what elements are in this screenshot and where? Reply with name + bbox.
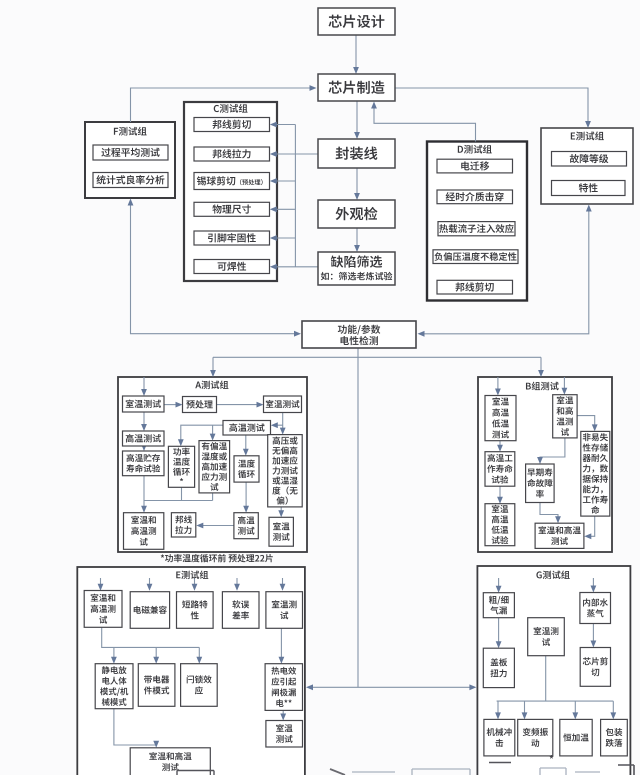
arrow into A-group top [212,357,214,374]
wire G distribution [497,656,614,716]
group frame F-test-group [85,122,175,198]
arrow packaging-line to bond-pull [273,153,318,155]
arrow A-top to room-temp-test-1 [143,377,145,393]
title G-test-group [536,570,569,579]
box defect-screening [318,252,395,285]
arrow B-top to rt-ht-lt-test [497,377,499,392]
item solderball-shear [194,173,270,190]
item high-temp-test-A [123,431,165,446]
arrow Ebottom-top to rt-test [282,578,284,588]
item failure-grade [552,152,627,167]
item bond-shear-D [437,280,513,294]
item bond-pull-A [171,513,195,537]
title E-test-group-bottom [176,570,208,579]
arrow Ebottom-top to short-circuit [194,578,196,588]
arrow thermoelectric to rt-bottom [282,711,284,718]
arrow into B-group top [540,357,542,374]
item room-temp-test-A-bottom [269,517,293,546]
arrow room-temp-1 to high-temp-test [143,412,145,428]
arrow trunk to bond-shear [273,124,295,126]
arrow D-group feedback to chip-manufacture [374,105,476,142]
wire distribution line to A and B [213,356,541,358]
item electromigration [437,159,513,173]
arrow ht-operating-life to rt-ht-lt-trial [499,486,501,500]
item nbti [433,250,518,264]
arrow trunk to physical-dimension [273,208,295,210]
note power-temp-cycle-precondition [161,554,273,562]
arrow chip-manufacture to E-group [395,88,588,125]
arrow chip-design to chip-manufacture [355,35,357,71]
arrow defect-screening to solderability [273,266,318,268]
item characteristics [552,181,626,196]
arrow hast-box to room-temp-bottom [280,507,282,514]
arrow G-top to internal-water-vapor [592,578,594,589]
item esd-hbm-mm [95,664,133,709]
arrow Ebottom-top to soft-error [236,578,238,588]
group frame E-test-group bottom-left [77,567,305,775]
title E-test-group [571,131,604,140]
box packaging-line [318,139,395,168]
arrow rt-test to thermoelectric [280,629,282,661]
item short-circuit-characteristic [177,592,214,629]
arrow preconditioning to room-temp-2 [217,404,261,406]
item rt-ht-lt-test [485,396,516,441]
group frame D-test-group [427,142,527,301]
arrow Ebottom-top to rt-ht-test [100,578,102,588]
arrow to biased-humidity [212,425,214,437]
item lead-integrity [194,231,270,245]
wire center trunk from electrical-test [357,348,359,687]
item rt-and-ht-test-B-bottom [535,523,584,548]
wire C-group trunk [294,125,296,267]
item internal-water-vapor [580,593,611,624]
box appearance-inspection [318,200,395,228]
item room-temp-test-A1 [123,396,165,412]
arrow chip-manufacture to packaging-line [356,101,358,136]
arrow rt-ht-lt to ht-operating-life [499,441,501,449]
item physical-dimension [194,202,270,216]
bottom cut-off fragments of next diagram row [489,762,511,764]
group frame G-test-group [477,566,630,775]
item lid-torque [483,648,514,687]
title A-test-group [195,380,228,389]
arrow electrical-test to E-group loop [422,208,589,334]
item statistical-yield-analysis [93,173,168,188]
item room-temp-test-A2 [264,396,302,413]
arrow high-temp-label to power-temp-cycle [181,425,223,443]
item soft-error-rate [222,592,259,629]
item rt-and-ht-test-E1 [84,591,122,628]
arrow temp-cycle to high-temp-bottom [245,482,247,509]
item gross-fine-leak [483,593,514,618]
group frame A-test-group [118,377,307,552]
arrow high-temp-label to temp-cycle [245,430,247,453]
item high-temp-label [223,421,271,436]
arrow rt-and-ht to nonvolatile [577,416,595,429]
item bond-shear [194,118,270,132]
item mechanical-shock [484,719,515,756]
item temp-cycle [234,456,259,482]
title F-test-group [114,127,147,136]
item room-temp-test-E-top [266,592,303,629]
item power-temp-cycle [168,446,194,487]
item room-temp-test-E-bottom [266,721,303,748]
item preconditioning [183,397,217,413]
item process-average-test [93,145,168,160]
item early-life-failure-rate [526,464,555,503]
arrow high-temp to storage-life [143,446,145,449]
arrow B-top to rt-and-ht-test [563,377,565,392]
box chip-manufacture [318,74,395,101]
item high-temp-storage-life [123,451,165,476]
arrow high-temp-bottom to bond-pull-A [200,525,234,527]
item room-temp-test-G [528,618,565,656]
item biased-temp-humidity [199,441,230,493]
item tddb [437,190,513,204]
item constant-acceleration [560,719,592,756]
arrow bottom split to E-bottom and G groups [310,686,472,688]
title B-group-test [526,382,559,391]
group frame C-test-group [184,102,277,281]
item bond-pull [194,147,270,161]
item rt-and-ht-test-B [553,395,577,438]
arrow early-life to rt-ht-bottom [540,503,558,520]
item package-drop [601,719,628,756]
arrow electrical-test to F-group loop [131,202,298,334]
item nonvolatile-endurance [581,431,610,516]
arrow appearance-inspection to defect-screening [356,229,358,250]
arrow F-group feedback to chip-manufacture [131,88,312,122]
item rt-and-ht-test-E-bottom [130,748,210,775]
item hast [268,435,303,507]
title C-test-group [214,104,248,113]
wire esd collector [102,628,200,661]
arrow trunk to lead-integrity [273,237,295,239]
title D-test-group [458,145,492,154]
arrow G-top to gross-fine-leak [498,578,500,590]
wire storage-life collector [144,476,213,510]
item room-and-high-temp-test-A [124,513,164,550]
item variable-freq-vibration [518,719,553,756]
arrow room-temp-1 to preconditioning [164,404,180,406]
arrow gross-fine-leak to lid-torque [498,618,500,645]
box functional-parametric-electrical-test [302,321,416,348]
arrow packaging-line to appearance-inspection [356,168,358,197]
arrow trunk to solderball-shear [273,180,295,182]
item rt-ht-lt-trial [485,504,515,546]
box chip-design [318,8,395,35]
item hot-carrier-injection [438,222,515,236]
arrow esd to rt-ht-bottom-box [114,709,156,746]
item high-temp-test-A-bottom [234,513,258,539]
arrow water-vapor to die-shear [592,624,594,645]
arrow room-temp-2 down and to high-temp-label [274,412,283,431]
item latch-up [181,664,218,707]
item ht-operating-life [485,452,515,487]
group frame B-test-group [478,377,612,552]
item solderability [194,260,270,274]
arrow nonvolatile to rt-ht-bottom [588,516,595,536]
item cdm [138,664,175,707]
item emc [130,592,169,629]
item die-shear [580,648,610,687]
arrow Ebottom-top to emc [149,578,151,588]
item thermoelectric-gate-leak [265,664,302,711]
group frame E-test-group top-right [541,128,633,204]
arrow rt-and-ht to early-life-failure [540,438,565,461]
